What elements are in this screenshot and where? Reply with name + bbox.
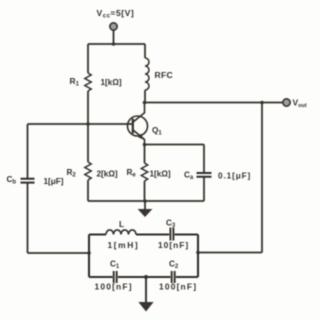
svg-text:L: L xyxy=(119,219,124,229)
svg-text:Q1: Q1 xyxy=(152,126,162,137)
svg-text:Vout: Vout xyxy=(293,98,307,110)
svg-text:R1: R1 xyxy=(70,76,80,88)
wire Re top lead xyxy=(144,145,146,164)
wire tank bottom edge left xyxy=(89,276,113,278)
wire Ca top lead xyxy=(203,145,205,173)
transistor Q1 xyxy=(128,103,148,145)
wire tank right edge xyxy=(197,235,199,278)
inductor RFC xyxy=(145,58,149,90)
capacitor C2 xyxy=(172,271,175,283)
junction left tap xyxy=(87,251,91,255)
svg-text:2[kΩ]: 2[kΩ] xyxy=(97,170,118,179)
wire Re bottom lead xyxy=(144,181,146,201)
svg-text:C1: C1 xyxy=(110,260,120,271)
svg-text:C2: C2 xyxy=(169,260,179,271)
wire left tap xyxy=(28,252,91,254)
svg-text:C3: C3 xyxy=(166,219,176,230)
svg-text:1[μF]: 1[μF] xyxy=(44,177,64,186)
svg-text:Ca: Ca xyxy=(184,171,194,182)
wire right tap xyxy=(198,252,262,254)
wire Cb upper lead (left vertical) xyxy=(27,124,29,178)
junction base node xyxy=(86,122,90,126)
wire bottom rail xyxy=(88,200,204,202)
wire top rail xyxy=(88,43,145,45)
terminal Vout xyxy=(283,99,290,106)
wire R2 top lead xyxy=(87,124,89,162)
junction right branch xyxy=(260,101,264,105)
capacitor Cb xyxy=(21,179,35,183)
wire tank top edge left xyxy=(89,233,106,235)
terminal Vcc xyxy=(110,23,117,30)
wire tank bottom edge right xyxy=(176,276,198,278)
junction tank center tap xyxy=(144,275,148,279)
wire Cb lower lead xyxy=(27,183,29,253)
junction emitter node xyxy=(143,143,147,147)
capacitor C1 xyxy=(114,271,117,283)
svg-text:Cb: Cb xyxy=(7,175,17,186)
wire Ca bottom lead xyxy=(203,178,205,202)
svg-text:RFC: RFC xyxy=(155,70,174,80)
wire right vertical xyxy=(261,103,263,253)
svg-text:Vcc=5[V]: Vcc=5[V] xyxy=(97,8,135,20)
svg-text:1[mH]: 1[mH] xyxy=(108,240,140,250)
svg-text:Re: Re xyxy=(127,168,137,179)
resistor Re xyxy=(141,163,147,181)
ground arrow lower xyxy=(145,277,147,303)
svg-text:100[nF]: 100[nF] xyxy=(95,282,133,292)
junction top rail xyxy=(112,42,116,46)
svg-text:10[nF]: 10[nF] xyxy=(158,240,189,250)
junction right tap xyxy=(196,251,200,255)
svg-text:0.1[μF]: 0.1[μF] xyxy=(218,172,251,181)
wire RFC top lead xyxy=(144,44,146,58)
wire tank top edge middle xyxy=(136,233,169,235)
wire Vcc stem xyxy=(113,31,115,45)
capacitor Ca xyxy=(197,173,212,177)
inductor L xyxy=(106,230,136,235)
junction ground node xyxy=(143,199,147,203)
wire Vout line xyxy=(145,102,284,104)
capacitor C3 xyxy=(170,228,173,241)
junction collector node xyxy=(143,101,147,105)
resistor R1 xyxy=(85,73,91,91)
ground arrow upper xyxy=(144,201,146,210)
wire R1 bottom lead xyxy=(87,91,89,124)
svg-text:1[kΩ]: 1[kΩ] xyxy=(101,78,122,87)
tank circuit box xyxy=(89,228,198,284)
resistor R2 xyxy=(85,162,91,180)
wire base xyxy=(28,123,133,125)
svg-text:R2: R2 xyxy=(67,168,77,179)
wire tank top edge right xyxy=(175,233,198,235)
wire RFC bottom lead xyxy=(144,90,146,103)
svg-text:1[kΩ]: 1[kΩ] xyxy=(150,170,171,179)
wire R2 bottom lead xyxy=(87,180,89,201)
wire tank left edge xyxy=(88,235,90,278)
wire tank bottom edge middle xyxy=(118,276,171,278)
svg-text:100[nF]: 100[nF] xyxy=(159,282,197,292)
wire R1 top lead xyxy=(87,44,89,73)
wire emitter node to Ca xyxy=(145,144,205,146)
